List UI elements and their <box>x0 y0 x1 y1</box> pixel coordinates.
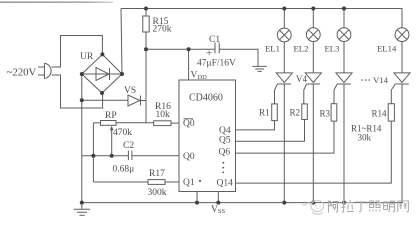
svg-text:10k: 10k <box>156 110 171 120</box>
svg-text:V14: V14 <box>373 75 389 85</box>
svg-text:Q5: Q5 <box>219 136 231 146</box>
svg-text:EL1: EL1 <box>265 43 280 53</box>
svg-text:VDD: VDD <box>191 71 208 82</box>
svg-text:EL14: EL14 <box>377 43 397 53</box>
svg-text:Q1: Q1 <box>183 178 195 188</box>
svg-text:Q14: Q14 <box>217 178 234 188</box>
svg-text:47μF/16V: 47μF/16V <box>197 59 236 69</box>
svg-text:~220V: ~220V <box>7 66 37 78</box>
svg-text:R3: R3 <box>320 109 331 119</box>
svg-text:30k: 30k <box>358 133 372 143</box>
svg-text:R2: R2 <box>290 108 301 118</box>
svg-text:V4: V4 <box>296 74 307 84</box>
svg-text:Q6: Q6 <box>219 148 231 158</box>
svg-text:270k: 270k <box>153 25 172 35</box>
svg-text:EL2: EL2 <box>294 43 309 53</box>
svg-text:UR: UR <box>80 52 94 62</box>
svg-text:Q0: Q0 <box>183 119 195 129</box>
svg-text:VSS: VSS <box>211 205 225 215</box>
svg-text:0.68μ: 0.68μ <box>113 165 135 175</box>
svg-text:Q0: Q0 <box>183 152 195 162</box>
svg-text:C2: C2 <box>123 141 134 151</box>
svg-text:Q4: Q4 <box>219 126 231 136</box>
svg-text:CD4060: CD4060 <box>189 93 223 104</box>
svg-text:R1: R1 <box>259 108 270 118</box>
svg-text:R14: R14 <box>372 109 388 119</box>
svg-text:300k: 300k <box>148 188 167 198</box>
svg-text:EL3: EL3 <box>325 43 340 53</box>
svg-text:R17: R17 <box>149 169 165 179</box>
svg-text:470k: 470k <box>113 128 132 138</box>
svg-text:RP: RP <box>105 111 117 121</box>
svg-text:VS: VS <box>124 86 136 96</box>
svg-text:C1: C1 <box>209 35 220 45</box>
